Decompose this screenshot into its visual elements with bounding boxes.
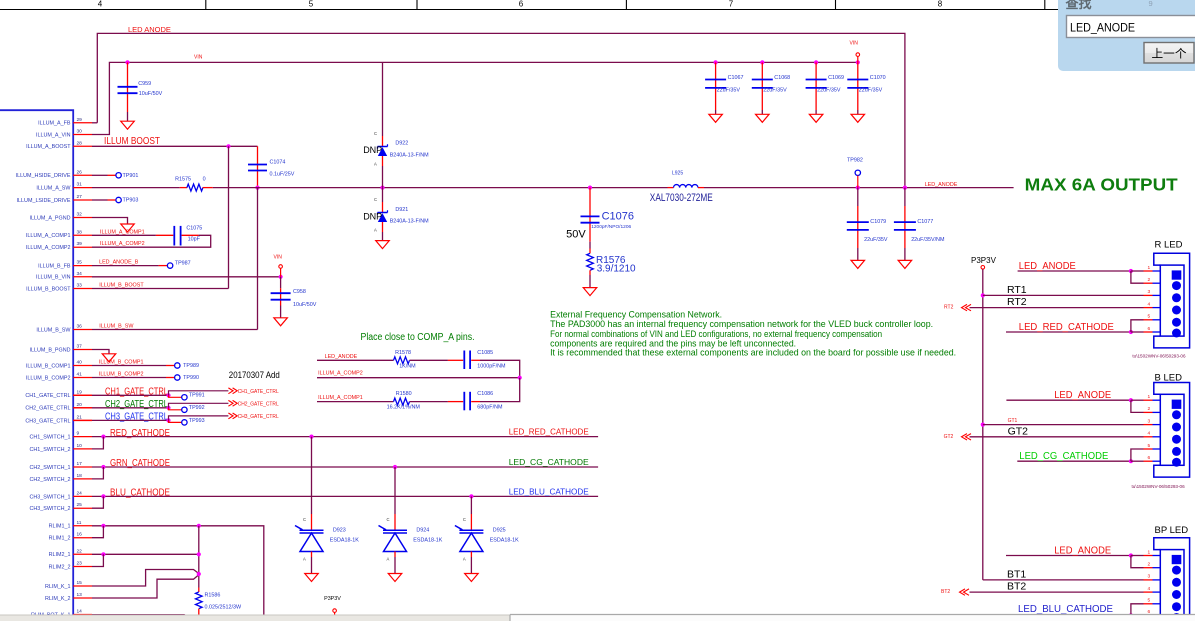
svg-text:ILLUM_A_COMP2: ILLUM_A_COMP2 — [100, 241, 145, 247]
svg-text:A: A — [374, 162, 377, 167]
svg-text:R1586: R1586 — [205, 593, 221, 599]
svg-text:10uF/50V: 10uF/50V — [293, 302, 317, 308]
svg-text:LED_ANODE: LED_ANODE — [325, 354, 358, 360]
svg-text:0: 0 — [203, 177, 206, 183]
svg-text:17: 17 — [77, 461, 83, 467]
svg-text:ILLUM_B_BOOST: ILLUM_B_BOOST — [26, 286, 71, 292]
svg-text:22uF/35V: 22uF/35V — [859, 88, 883, 94]
svg-text:C1077: C1077 — [917, 219, 933, 225]
svg-text:RLIM_K_2: RLIM_K_2 — [45, 596, 70, 602]
svg-text:18: 18 — [77, 473, 83, 479]
svg-text:ILLUM_B_PGND: ILLUM_B_PGND — [29, 347, 70, 353]
svg-text:1200pF/NPO/1206: 1200pF/NPO/1206 — [591, 224, 631, 230]
svg-text:C1075: C1075 — [186, 226, 202, 232]
svg-text:27: 27 — [77, 194, 83, 200]
svg-text:C1070: C1070 — [870, 75, 886, 81]
svg-text:R1580: R1580 — [396, 391, 412, 397]
svg-text:11: 11 — [77, 520, 82, 526]
svg-text:15: 15 — [77, 580, 83, 586]
svg-text:Place close to COMP_A pins.: Place close to COMP_A pins. — [361, 332, 475, 343]
svg-text:R1575: R1575 — [175, 177, 191, 183]
svg-text:VIN: VIN — [274, 255, 283, 261]
svg-text:35: 35 — [77, 260, 83, 266]
svg-text:22uF/35V: 22uF/35V — [817, 88, 841, 94]
svg-text:LED ANODE: LED ANODE — [128, 25, 171, 34]
svg-text:30: 30 — [77, 129, 83, 135]
svg-text:22uF/35V: 22uF/35V — [864, 237, 888, 243]
svg-text:LED_CG_CATHODE: LED_CG_CATHODE — [509, 457, 589, 467]
svg-text:LED_ANODE: LED_ANODE — [1054, 389, 1111, 401]
svg-text:C958: C958 — [293, 289, 306, 295]
svg-text:1K/NM: 1K/NM — [399, 363, 416, 369]
svg-text:4: 4 — [1148, 301, 1151, 307]
svg-text:2: 2 — [1148, 277, 1151, 283]
svg-text:CH3_GATE_CTRL: CH3_GATE_CTRL — [25, 418, 70, 424]
svg-text:6: 6 — [1148, 455, 1151, 461]
svg-text:C1067: C1067 — [728, 75, 744, 81]
svg-text:ILLUM_A_COMP1: ILLUM_A_COMP1 — [318, 395, 363, 401]
svg-text:TP991: TP991 — [189, 393, 205, 399]
svg-text:CH1_GATE_CTRL: CH1_GATE_CTRL — [238, 389, 279, 395]
svg-text:32: 32 — [77, 212, 83, 218]
svg-text:B240A-13-F/NM: B240A-13-F/NM — [390, 152, 429, 158]
svg-text:C1069: C1069 — [828, 75, 844, 81]
svg-text:LED_RED_CATHODE: LED_RED_CATHODE — [509, 427, 589, 437]
svg-text:1: 1 — [1148, 549, 1151, 555]
svg-text:ESDA18-1K: ESDA18-1K — [490, 538, 519, 544]
svg-text:34: 34 — [77, 271, 83, 277]
svg-text:50V: 50V — [566, 229, 586, 241]
svg-text:RT2: RT2 — [944, 305, 954, 311]
svg-text:LED_RED_CATHODE: LED_RED_CATHODE — [1019, 321, 1114, 333]
svg-text:C1068: C1068 — [774, 75, 790, 81]
svg-text:680pF/NM: 680pF/NM — [477, 405, 503, 411]
svg-text:31: 31 — [77, 182, 83, 188]
svg-text:6: 6 — [519, 0, 524, 9]
svg-text:GT2: GT2 — [1008, 425, 1029, 437]
svg-text:21: 21 — [77, 414, 83, 420]
svg-text:CH1_GATE_CTRL: CH1_GATE_CTRL — [105, 386, 168, 397]
svg-text:5: 5 — [1148, 598, 1151, 604]
svg-text:CH2_GATE_CTRL: CH2_GATE_CTRL — [105, 399, 168, 410]
svg-text:LED_ANODE_B: LED_ANODE_B — [99, 259, 139, 265]
svg-text:D921: D921 — [395, 207, 408, 213]
svg-text:C959: C959 — [138, 81, 151, 87]
svg-text:C: C — [463, 517, 466, 522]
svg-text:BT2: BT2 — [941, 589, 950, 595]
svg-text:16.2K/1%/NM: 16.2K/1%/NM — [387, 405, 421, 411]
svg-text:3: 3 — [1148, 574, 1151, 580]
svg-text:2: 2 — [1148, 406, 1151, 412]
svg-text:8: 8 — [938, 0, 943, 9]
svg-text:23: 23 — [77, 561, 83, 567]
svg-text:40: 40 — [77, 360, 83, 366]
svg-text:ILLUM BOOST: ILLUM BOOST — [104, 136, 160, 147]
svg-text:5: 5 — [309, 0, 314, 9]
svg-text:LED_BLU_CATHODE: LED_BLU_CATHODE — [1018, 603, 1113, 615]
svg-text:D923: D923 — [333, 528, 346, 534]
svg-text:上一个: 上一个 — [1152, 48, 1188, 61]
svg-text:D924: D924 — [416, 528, 429, 534]
svg-text:TP982: TP982 — [847, 158, 863, 164]
svg-text:9: 9 — [1149, 0, 1153, 8]
svg-text:TP989: TP989 — [183, 363, 199, 369]
svg-text:External Frequency Compensatio: External Frequency Compensation Network. — [550, 310, 722, 320]
svg-text:ILLUM_A_FB: ILLUM_A_FB — [38, 121, 71, 127]
svg-text:ILLUM_A_COMP2: ILLUM_A_COMP2 — [26, 245, 71, 251]
svg-text:3.9/1210: 3.9/1210 — [597, 263, 636, 274]
svg-text:ESDA18-1K: ESDA18-1K — [413, 538, 442, 544]
svg-text:13: 13 — [77, 592, 83, 598]
svg-text:ESDA18-1K: ESDA18-1K — [330, 538, 359, 544]
svg-text:GT2: GT2 — [944, 434, 954, 440]
svg-text:D922: D922 — [395, 141, 408, 147]
svg-text:10: 10 — [77, 443, 83, 449]
svg-text:10pF: 10pF — [188, 237, 201, 243]
svg-text:26: 26 — [77, 169, 83, 175]
svg-text:C: C — [374, 197, 377, 202]
svg-text:ILLUM_A_COMP1: ILLUM_A_COMP1 — [26, 233, 71, 239]
svg-text:tu\1502WNV-06\50293-06: tu\1502WNV-06\50293-06 — [1132, 354, 1186, 359]
svg-text:P3P3V: P3P3V — [324, 596, 341, 602]
svg-text:C1076: C1076 — [602, 210, 634, 222]
svg-text:4: 4 — [98, 0, 103, 9]
svg-text:LED_ANODE: LED_ANODE — [1019, 260, 1076, 272]
svg-text:A: A — [463, 557, 466, 562]
svg-text:38: 38 — [77, 229, 83, 235]
svg-text:4: 4 — [1148, 586, 1151, 592]
svg-text:CH2_SWITCH_1: CH2_SWITCH_1 — [29, 465, 70, 471]
svg-text:C1086: C1086 — [477, 391, 493, 397]
svg-text:CH3_GATE_CTRL: CH3_GATE_CTRL — [105, 411, 168, 422]
svg-text:LED_ANODE: LED_ANODE — [925, 182, 958, 188]
svg-text:RLIM2_1: RLIM2_1 — [49, 552, 71, 558]
svg-text:33: 33 — [77, 283, 83, 289]
svg-text:VIN: VIN — [850, 41, 859, 47]
svg-text:C1085: C1085 — [477, 350, 493, 356]
svg-text:14: 14 — [77, 609, 83, 615]
svg-text:ILLUM_A_BOOST: ILLUM_A_BOOST — [26, 144, 71, 150]
svg-text:CH2_GATE_CTRL: CH2_GATE_CTRL — [238, 402, 279, 408]
svg-text:DNP: DNP — [363, 145, 382, 155]
svg-text:TP903: TP903 — [123, 198, 139, 204]
svg-text:VIN: VIN — [194, 55, 203, 61]
svg-text:CH3_SWITCH_2: CH3_SWITCH_2 — [29, 506, 70, 512]
svg-text:CH1_SWITCH_2: CH1_SWITCH_2 — [29, 447, 70, 453]
svg-text:22uF/35V/NM: 22uF/35V/NM — [911, 237, 945, 243]
svg-text:10uF/50V: 10uF/50V — [139, 91, 163, 97]
svg-text:TP990: TP990 — [183, 375, 199, 381]
svg-text:7: 7 — [729, 0, 734, 9]
svg-text:3: 3 — [1148, 289, 1151, 295]
svg-text:TP901: TP901 — [123, 173, 139, 179]
svg-text:37: 37 — [77, 344, 83, 350]
svg-text:TP992: TP992 — [189, 405, 205, 411]
svg-text:A: A — [303, 557, 306, 562]
svg-text:D925: D925 — [493, 528, 506, 534]
svg-text:5: 5 — [1148, 443, 1151, 449]
svg-text:C1079: C1079 — [870, 219, 886, 225]
svg-text:ILLUM_HSIDE_DRIVE: ILLUM_HSIDE_DRIVE — [16, 173, 71, 179]
svg-text:RLIM1_2: RLIM1_2 — [49, 536, 71, 542]
svg-text:tu\1502WNV-06\50293-06: tu\1502WNV-06\50293-06 — [1132, 484, 1186, 489]
svg-text:CH1_SWITCH_1: CH1_SWITCH_1 — [29, 435, 70, 441]
svg-text:MAX 6A OUTPUT: MAX 6A OUTPUT — [1025, 175, 1178, 195]
svg-text:24: 24 — [77, 490, 83, 496]
svg-text:L925: L925 — [672, 171, 683, 177]
svg-text:1000pF/NM: 1000pF/NM — [477, 363, 506, 369]
svg-text:ILLUM_B_BOOST: ILLUM_B_BOOST — [99, 282, 144, 288]
svg-text:C1074: C1074 — [270, 160, 286, 166]
svg-text:2: 2 — [1148, 562, 1151, 568]
svg-text:9: 9 — [77, 431, 80, 437]
svg-text:RED_CATHODE: RED_CATHODE — [110, 428, 170, 439]
svg-text:ILLUM_A_SW: ILLUM_A_SW — [36, 186, 71, 192]
svg-text:LED_ANODE: LED_ANODE — [1054, 545, 1111, 557]
svg-text:0.025/2512/3W: 0.025/2512/3W — [205, 605, 242, 611]
svg-text:TP987: TP987 — [175, 260, 191, 266]
svg-text:The PAD3000 has an internal fr: The PAD3000 has an internal frequency co… — [550, 319, 933, 329]
svg-text:CH3_SWITCH_1: CH3_SWITCH_1 — [29, 494, 70, 500]
svg-text:41: 41 — [77, 372, 83, 378]
svg-text:RT1: RT1 — [1007, 284, 1027, 296]
svg-text:ILLUM_B_FB: ILLUM_B_FB — [38, 264, 71, 270]
svg-text:1: 1 — [1148, 394, 1151, 400]
svg-text:C: C — [374, 131, 377, 136]
svg-text:ILLUM_A_PGND: ILLUM_A_PGND — [29, 215, 70, 221]
svg-text:BT2: BT2 — [1007, 581, 1026, 593]
svg-text:0.1uF/25V: 0.1uF/25V — [270, 172, 295, 178]
svg-text:CH2_SWITCH_2: CH2_SWITCH_2 — [29, 477, 70, 483]
svg-text:ILLUM_A_COMP2: ILLUM_A_COMP2 — [318, 371, 363, 377]
svg-text:ILLUM_B_COMP1: ILLUM_B_COMP1 — [99, 359, 144, 365]
svg-text:ILLUM_LSIDE_DRIVE: ILLUM_LSIDE_DRIVE — [17, 198, 71, 204]
svg-text:ILLUM_A_COMP1: ILLUM_A_COMP1 — [100, 229, 145, 235]
svg-text:TP993: TP993 — [189, 418, 205, 424]
svg-text:LED_CG_CATHODE: LED_CG_CATHODE — [1019, 450, 1108, 462]
svg-text:LED_BLU_CATHODE: LED_BLU_CATHODE — [509, 486, 589, 496]
svg-text:16: 16 — [77, 532, 83, 538]
svg-text:29: 29 — [77, 117, 83, 123]
svg-text:5: 5 — [1148, 314, 1151, 320]
svg-text:RLIM2_2: RLIM2_2 — [49, 564, 71, 570]
svg-text:P3P3V: P3P3V — [971, 256, 997, 265]
svg-text:B240A-13-F/NM: B240A-13-F/NM — [390, 219, 429, 225]
svg-text:BP LED: BP LED — [1155, 525, 1189, 536]
svg-text:ILLUM_B_COMP1: ILLUM_B_COMP1 — [26, 363, 71, 369]
svg-text:BLU_CATHODE: BLU_CATHODE — [110, 488, 170, 499]
svg-text:CH2_GATE_CTRL: CH2_GATE_CTRL — [25, 406, 70, 412]
svg-text:GRN_CATHODE: GRN_CATHODE — [110, 458, 170, 469]
svg-text:RLIM1_1: RLIM1_1 — [49, 524, 71, 530]
svg-text:25: 25 — [77, 502, 83, 508]
svg-text:C: C — [303, 517, 306, 522]
svg-text:22uF/35V: 22uF/35V — [763, 88, 787, 94]
svg-text:LED_ANODE: LED_ANODE — [1070, 23, 1135, 35]
svg-text:B LED: B LED — [1155, 373, 1183, 384]
svg-text:CH3_GATE_CTRL: CH3_GATE_CTRL — [238, 414, 279, 420]
svg-text:36: 36 — [77, 324, 83, 330]
svg-text:22: 22 — [77, 548, 83, 554]
svg-text:28: 28 — [77, 140, 83, 146]
svg-text:XAL7030-272ME: XAL7030-272ME — [650, 192, 713, 204]
svg-text:ILLUM_B_SW: ILLUM_B_SW — [36, 327, 71, 333]
svg-text:GT1: GT1 — [1008, 418, 1018, 424]
svg-text:ILLUM_B_SW: ILLUM_B_SW — [99, 323, 134, 329]
svg-text:ILLUM_B_COMP2: ILLUM_B_COMP2 — [26, 375, 71, 381]
svg-text:C: C — [387, 517, 390, 522]
svg-text:It is recommended that these e: It is recommended that these external co… — [550, 348, 956, 358]
svg-text:R1578: R1578 — [395, 350, 411, 356]
svg-text:DNP: DNP — [363, 212, 382, 222]
svg-text:22uF/35V: 22uF/35V — [717, 88, 741, 94]
svg-text:20: 20 — [77, 402, 83, 408]
svg-text:ILLUM_A_VIN: ILLUM_A_VIN — [36, 132, 71, 138]
svg-text:A: A — [387, 557, 390, 562]
svg-text:4: 4 — [1148, 431, 1151, 437]
svg-text:RLIM_K_1: RLIM_K_1 — [45, 584, 70, 590]
svg-text:20170307 Add: 20170307 Add — [229, 370, 280, 381]
svg-text:6: 6 — [1148, 326, 1151, 332]
svg-text:BT1: BT1 — [1007, 569, 1026, 581]
svg-text:A: A — [374, 228, 377, 233]
svg-text:查找: 查找 — [1065, 0, 1092, 11]
svg-text:CH1_GATE_CTRL: CH1_GATE_CTRL — [25, 393, 70, 399]
svg-text:ILLUM_B_COMP2: ILLUM_B_COMP2 — [99, 371, 144, 377]
svg-text:3: 3 — [1148, 418, 1151, 424]
svg-text:R LED: R LED — [1155, 240, 1183, 251]
svg-text:19: 19 — [77, 389, 83, 395]
svg-text:RT2: RT2 — [1007, 296, 1027, 308]
svg-text:39: 39 — [77, 241, 83, 247]
svg-text:1: 1 — [1148, 265, 1151, 271]
svg-text:ILLUM_B_VIN: ILLUM_B_VIN — [36, 275, 71, 281]
